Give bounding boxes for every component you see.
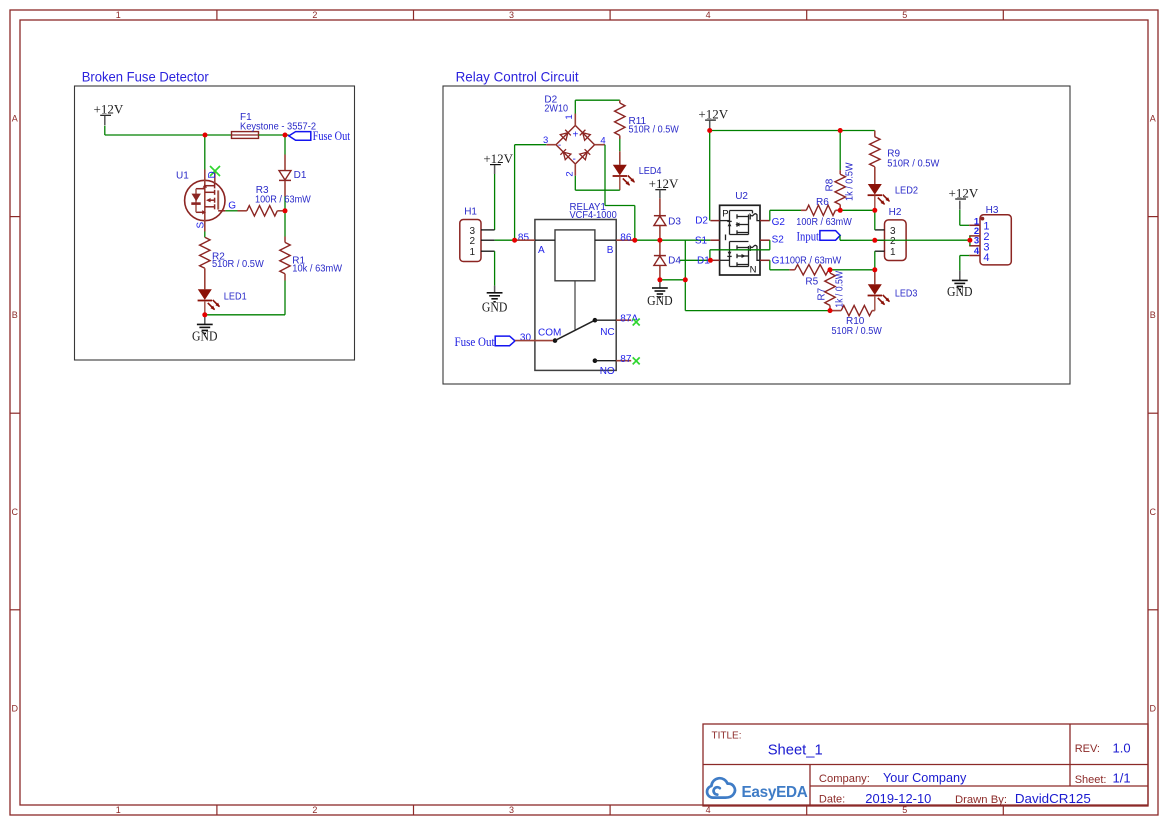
net flag Fuse Out (circuit 1) bbox=[289, 132, 311, 141]
wire node86 row to S1 pin bbox=[661, 239, 711, 241]
svg-text:Date:: Date: bbox=[819, 794, 845, 806]
wire LED2 node to H2 pin3 bbox=[874, 210, 876, 230]
svg-text:D: D bbox=[12, 703, 19, 713]
svg-text:COM: COM bbox=[538, 327, 561, 338]
node junction Input/H2 pin2 bbox=[872, 238, 877, 243]
svg-text:S1: S1 bbox=[695, 236, 708, 247]
svg-text:-: - bbox=[558, 140, 561, 151]
svg-text:S2: S2 bbox=[772, 234, 785, 245]
svg-text:86: 86 bbox=[620, 232, 632, 243]
svg-text:1/1: 1/1 bbox=[1113, 771, 1131, 786]
svg-text:30: 30 bbox=[520, 332, 532, 343]
svg-text:2: 2 bbox=[565, 171, 576, 176]
diode D3 bbox=[659, 198, 661, 215]
svg-text:+12V: +12V bbox=[698, 106, 728, 121]
svg-text:U1: U1 bbox=[176, 171, 189, 182]
wire +12V to H3 pin1 bbox=[959, 210, 961, 226]
svg-text:Fuse Out: Fuse Out bbox=[313, 128, 351, 143]
svg-text:2W10: 2W10 bbox=[544, 103, 568, 114]
svg-text:TITLE:: TITLE: bbox=[712, 731, 742, 742]
svg-text:DavidCR125: DavidCR125 bbox=[1015, 791, 1091, 806]
svg-text:+12V: +12V bbox=[649, 176, 679, 191]
wire +12V to node bbox=[104, 126, 106, 135]
svg-text:1: 1 bbox=[470, 247, 476, 258]
svg-text:EasyEDA: EasyEDA bbox=[742, 784, 809, 801]
node junction D1 bbox=[708, 258, 713, 263]
svg-text:A: A bbox=[1150, 114, 1156, 124]
svg-text:+: + bbox=[572, 130, 578, 141]
relay coil stem bbox=[574, 281, 576, 330]
svg-text:LED3: LED3 bbox=[895, 288, 918, 299]
svg-text:3: 3 bbox=[974, 236, 979, 247]
wire F1 to Fuse Out node bbox=[259, 134, 289, 136]
svg-text:D3: D3 bbox=[668, 217, 681, 228]
svg-text:+12V: +12V bbox=[483, 151, 513, 166]
wire node85 up to bridge pin3 bbox=[514, 145, 516, 241]
node junction gate/R3/R1 bbox=[283, 208, 288, 213]
wire rail down to R8 bbox=[839, 131, 841, 171]
svg-text:D2: D2 bbox=[695, 216, 708, 227]
svg-text:G1: G1 bbox=[772, 256, 786, 267]
svg-text:LED1: LED1 bbox=[224, 291, 247, 302]
svg-text:R6: R6 bbox=[816, 197, 829, 208]
svg-text:Drawn By:: Drawn By: bbox=[955, 794, 1007, 806]
svg-text:Fuse Out: Fuse Out bbox=[455, 334, 495, 349]
svg-text:2: 2 bbox=[312, 805, 317, 815]
svg-text:1: 1 bbox=[564, 114, 575, 119]
svg-text:H2: H2 bbox=[889, 207, 902, 218]
node junction at F1 right bbox=[283, 133, 288, 138]
svg-text:4: 4 bbox=[983, 252, 989, 264]
svg-text:REV:: REV: bbox=[1075, 743, 1100, 755]
wire H2 pin1 to LED3 node bbox=[874, 251, 876, 270]
svg-text:Company:: Company: bbox=[819, 773, 870, 785]
wire H3 pin4 to GND bbox=[960, 255, 969, 257]
wire bridge pin4 to relay pin B node 86 bbox=[604, 145, 606, 206]
svg-text:2019-12-10: 2019-12-10 bbox=[865, 791, 931, 806]
svg-text:B: B bbox=[1150, 310, 1156, 320]
resistor R10 bbox=[830, 310, 841, 312]
svg-text:510R / 0.5W: 510R / 0.5W bbox=[832, 326, 883, 337]
svg-text:C: C bbox=[1150, 507, 1157, 517]
net flag Fuse Out (relay side) bbox=[495, 336, 515, 346]
ground GND below H3 bbox=[959, 271, 961, 280]
svg-text:A: A bbox=[538, 245, 545, 256]
no-connect X at 87A bbox=[633, 319, 640, 326]
svg-text:H3: H3 bbox=[986, 205, 999, 216]
wire R5 node to LED3 node bbox=[830, 269, 875, 271]
U1 internal channel and stubs bbox=[196, 183, 215, 212]
svg-text:3: 3 bbox=[509, 10, 514, 20]
wire D4 node to vertical bus bbox=[660, 279, 685, 281]
svg-text:1k / 0.5W: 1k / 0.5W bbox=[844, 162, 855, 201]
svg-text:R8: R8 bbox=[824, 178, 835, 191]
U1 body diode bbox=[192, 194, 201, 202]
svg-text:Broken Fuse Detector: Broken Fuse Detector bbox=[82, 69, 209, 85]
svg-text:U2: U2 bbox=[735, 191, 748, 202]
wire H1 pin1 to GND bbox=[494, 251, 496, 285]
wire R1 to LED1 node bbox=[284, 281, 286, 315]
ground GND below H1 bbox=[494, 286, 496, 293]
svg-text:GND: GND bbox=[947, 284, 973, 299]
node junction at F1 left bbox=[203, 133, 208, 138]
lead 85 to relay A bbox=[515, 239, 535, 241]
svg-text:85: 85 bbox=[518, 232, 530, 243]
resistor R2 bbox=[204, 232, 206, 238]
ground GND below D4 bbox=[659, 280, 661, 288]
node junction D4/GND bbox=[657, 277, 662, 282]
node junction rail/R8 bbox=[838, 128, 843, 133]
svg-text:A: A bbox=[12, 114, 18, 124]
svg-text:R5: R5 bbox=[805, 277, 818, 288]
net flag Input bbox=[820, 231, 840, 241]
resistor R9 bbox=[874, 131, 876, 137]
bridge pin leads and numbers bbox=[574, 114, 576, 126]
svg-text:B: B bbox=[607, 245, 614, 256]
resistor R1 bbox=[284, 237, 286, 243]
wire gate to R3 bbox=[225, 210, 237, 212]
led LED1 bbox=[198, 289, 212, 300]
svg-text:Your Company: Your Company bbox=[883, 770, 967, 785]
svg-text:-: - bbox=[573, 154, 576, 165]
wire F1 node down to D1 bbox=[284, 135, 286, 155]
svg-text:2: 2 bbox=[890, 236, 896, 247]
svg-text:1: 1 bbox=[890, 247, 896, 258]
svg-text:GND: GND bbox=[192, 329, 218, 344]
resistor R5 bbox=[789, 269, 794, 271]
mosfet U1 (P-channel) bbox=[185, 180, 225, 220]
svg-text:87: 87 bbox=[620, 354, 632, 365]
EasyEDA logo bbox=[707, 778, 735, 797]
relay RELAY1 VCF4-1000 bbox=[535, 220, 616, 371]
resistor R7 bbox=[829, 270, 831, 273]
wire D1 row stub bbox=[680, 259, 711, 261]
svg-text:GND: GND bbox=[647, 293, 673, 308]
relay switch arm bbox=[555, 320, 595, 340]
wire bus bottom to R7/R10 node bbox=[685, 310, 830, 312]
resistor R11 bbox=[619, 100, 621, 103]
node junction +12V rail left bbox=[707, 128, 712, 133]
svg-text:GND: GND bbox=[482, 299, 508, 314]
resistor R3 bbox=[238, 210, 247, 212]
svg-text:510R / 0.5W: 510R / 0.5W bbox=[629, 125, 680, 136]
node junction vertical bus bbox=[683, 277, 688, 282]
svg-text:Relay Control Circuit: Relay Control Circuit bbox=[456, 69, 579, 85]
svg-text:3: 3 bbox=[543, 135, 548, 146]
svg-text:D: D bbox=[207, 171, 218, 178]
svg-text:D1: D1 bbox=[294, 170, 307, 181]
svg-text:Sheet:: Sheet: bbox=[1075, 774, 1107, 786]
led LED4 bbox=[619, 151, 621, 165]
connector H3 bbox=[980, 215, 1011, 265]
wire S2 to D1 jog bbox=[769, 240, 771, 250]
svg-text:1: 1 bbox=[116, 10, 121, 20]
svg-text:N: N bbox=[750, 265, 757, 276]
relay coil box bbox=[555, 230, 595, 281]
node junction H3 input bbox=[967, 238, 972, 243]
svg-text:B: B bbox=[12, 310, 18, 320]
wire +12V to H1 pin3 bbox=[494, 174, 496, 230]
svg-text:S: S bbox=[196, 222, 207, 229]
svg-text:Sheet_1: Sheet_1 bbox=[768, 741, 823, 758]
node junction 86 bbox=[632, 238, 637, 243]
node junction R5/R7 bbox=[828, 267, 833, 272]
svg-text:510R / 0.5W: 510R / 0.5W bbox=[887, 158, 940, 169]
svg-text:D: D bbox=[1150, 703, 1157, 713]
svg-text:D4: D4 bbox=[668, 256, 681, 267]
wire node down to U1 drain bbox=[204, 135, 206, 170]
wire G2 to R6 bbox=[769, 210, 771, 220]
resistor R6 bbox=[801, 209, 806, 211]
wire bridge pin2 to LED4 bottom bbox=[574, 176, 576, 191]
svg-text:10k / 63mW: 10k / 63mW bbox=[292, 264, 342, 275]
wire R11 to LED4 bbox=[619, 139, 621, 151]
svg-text:H1: H1 bbox=[464, 206, 477, 217]
svg-text:100R / 63mW: 100R / 63mW bbox=[796, 217, 852, 228]
svg-text:100R / 63mW: 100R / 63mW bbox=[785, 255, 842, 266]
node junction R7/R10 bbox=[828, 308, 833, 313]
title block frame bbox=[703, 724, 1148, 806]
diode D4 bbox=[659, 240, 661, 255]
svg-text:+12V: +12V bbox=[949, 185, 979, 200]
ground GND (circuit 1) bbox=[204, 315, 206, 324]
svg-text:4: 4 bbox=[974, 246, 980, 257]
connector H2 bbox=[885, 220, 907, 261]
H3 pin leads bbox=[969, 224, 980, 226]
node junction D3/D4 bbox=[657, 238, 662, 243]
svg-text:+12V: +12V bbox=[94, 102, 124, 117]
relay pin A bbox=[535, 239, 555, 241]
node junction LED2/R6 bbox=[872, 208, 877, 213]
node junction LED3/R5 bbox=[872, 267, 877, 272]
svg-text:3: 3 bbox=[509, 805, 514, 815]
svg-text:1.0: 1.0 bbox=[1113, 740, 1131, 755]
wire rail down to U2 D2 pin bbox=[709, 131, 711, 221]
svg-text:Input: Input bbox=[797, 229, 820, 244]
resistor R8 bbox=[839, 170, 841, 174]
svg-text:2: 2 bbox=[312, 10, 317, 20]
lead relay B to node 86 bbox=[616, 239, 635, 241]
svg-text:C: C bbox=[12, 507, 19, 517]
svg-text:5: 5 bbox=[902, 10, 907, 20]
svg-text:P: P bbox=[722, 209, 728, 220]
node junction LED1/GND bbox=[202, 312, 207, 317]
svg-text:NC: NC bbox=[600, 327, 614, 338]
svg-text:LED2: LED2 bbox=[895, 186, 919, 197]
wire bridge pin1 to R11 bbox=[574, 100, 576, 113]
U2 pin leads bbox=[710, 220, 719, 222]
svg-text:2: 2 bbox=[470, 236, 476, 247]
relay NO contact bbox=[593, 358, 598, 363]
H3 pin1 marker bbox=[981, 217, 985, 221]
wire D1 to R3/R1 node bbox=[284, 197, 286, 237]
svg-text:100R / 63mW: 100R / 63mW bbox=[255, 194, 311, 205]
svg-text:G: G bbox=[228, 200, 236, 211]
wire R6 node to LED2 node bbox=[840, 209, 875, 211]
connector H1 bbox=[460, 220, 481, 262]
no-connect X at U1 drain bbox=[210, 166, 220, 176]
svg-text:VCF4-1000: VCF4-1000 bbox=[570, 210, 618, 221]
circuit boundary box 2 bbox=[443, 86, 1070, 384]
circuit boundary box 1 bbox=[75, 86, 355, 360]
node junction 85 bbox=[512, 238, 517, 243]
svg-text:1: 1 bbox=[116, 805, 121, 815]
svg-text:Keystone - 3557-2: Keystone - 3557-2 bbox=[240, 121, 316, 132]
svg-text:G2: G2 bbox=[772, 217, 786, 228]
led LED2 bbox=[868, 184, 882, 195]
svg-text:R7: R7 bbox=[817, 287, 828, 300]
diode D1 bbox=[284, 155, 286, 171]
led LED3 bbox=[874, 270, 876, 285]
svg-text:NO: NO bbox=[600, 366, 615, 377]
ic U2 dual mosfet bbox=[720, 205, 760, 275]
no-connect X at 87 bbox=[633, 357, 640, 364]
wire S1 bus vertical bbox=[684, 240, 686, 310]
relay COM contact bbox=[553, 338, 558, 343]
svg-text:1k / 0.5W: 1k / 0.5W bbox=[835, 270, 846, 307]
svg-text:4: 4 bbox=[706, 10, 711, 20]
U1 gate bar and gate lead bbox=[217, 190, 219, 209]
U2 internal N mosfet bbox=[720, 242, 760, 267]
wire +12V rail bbox=[710, 130, 875, 132]
wire H1 pin2 to node 85 bbox=[495, 239, 515, 241]
bridge rectifier D2 bbox=[556, 125, 595, 164]
U2 internal P mosfet bbox=[720, 211, 760, 241]
relay pin B bbox=[595, 239, 616, 241]
wire Input to H2 pin2 and H3 bbox=[839, 235, 841, 240]
wire G1 to R5 bbox=[769, 260, 771, 270]
svg-text:510R / 0.5W: 510R / 0.5W bbox=[212, 259, 264, 270]
node junction R6/R8 bbox=[838, 208, 843, 213]
lead Fuse Out to COM bbox=[515, 340, 553, 342]
wire H3 pin2-pin3 link bbox=[969, 236, 971, 246]
wire node 86 to D3/D4 node bbox=[635, 239, 661, 241]
fuse F1 bbox=[232, 132, 259, 139]
relay NC contact bbox=[593, 318, 598, 323]
